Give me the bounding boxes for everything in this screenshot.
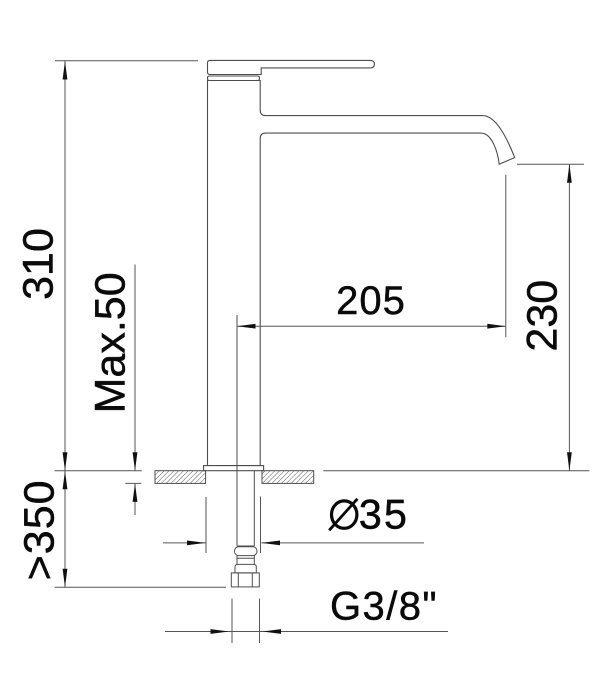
base flange [204,466,264,471]
dimension texts [329,279,438,629]
Max.50 dimension line lower [134,483,136,515]
230 dimension line [568,164,570,470]
dimension and extension lines [55,61,590,643]
counter top extension line left [55,470,142,472]
>350 dimension line [64,471,66,588]
arrowheads [63,61,572,634]
G3/8 extension line right [259,599,261,644]
diam35 arrow pointing right [187,541,206,546]
310 arrow down [63,452,68,471]
hex nut G3/8 [231,573,259,587]
230 arrow down [567,452,572,471]
faucet lever handle [208,60,375,74]
svg-text:310: 310 [15,228,63,300]
tailpiece mid section [237,556,254,565]
Max.50 dimension line upper [134,265,136,471]
svg-text:Max.50: Max.50 [86,272,134,413]
tailpiece bead ring [235,547,258,556]
205 right extension line (spout outlet axis) [505,175,507,338]
Max.50 arrow up (tip at counter bottom) [133,483,138,502]
svg-text:G3/8": G3/8" [330,585,438,629]
G3/8 arrow pointing left [263,629,282,634]
counter slab right segment [262,471,314,484]
bottom extension line (nut bottom) [55,586,227,588]
diameter symbol O [332,501,357,528]
top extension line (faucet top) [55,60,198,62]
Max.50 bottom extension tick [125,482,141,484]
counter slab left segment [155,471,314,484]
diam35 arrow pointing left [262,541,281,546]
>350 arrow down (tip at nut bottom line) [63,569,68,588]
230 top extension line (outlet level) [517,163,584,165]
diameter symbol slash [329,499,357,531]
supply tube below counter [253,471,255,546]
tailpiece flare [235,564,256,573]
310 dimension line [64,61,66,471]
>350 arrow up (tip at counter) [63,471,68,490]
205 dimension line [237,325,506,327]
G3/8 arrow pointing right [211,629,230,634]
diam35 dimension line left part [163,542,206,544]
diam35 extension line left [205,497,207,553]
G3/8 dimension line [165,631,448,633]
diam35 extension line right [260,497,262,554]
205 arrow right [487,324,506,329]
diam35 dimension line right part [262,542,425,544]
faucet body and spout outline [208,81,515,466]
cartridge cap [208,76,260,81]
svg-text:230: 230 [519,280,567,352]
310 arrow up [63,61,68,80]
Max.50 arrow down (tip at counter top) [133,452,138,471]
230 arrow up [567,164,572,183]
svg-text:35: 35 [359,491,409,538]
205 arrow left [237,324,256,329]
svg-text:205: 205 [336,279,406,323]
svg-text:>350: >350 [15,479,63,580]
counter top extension line right [323,470,589,472]
G3/8 extension line left [231,599,233,644]
